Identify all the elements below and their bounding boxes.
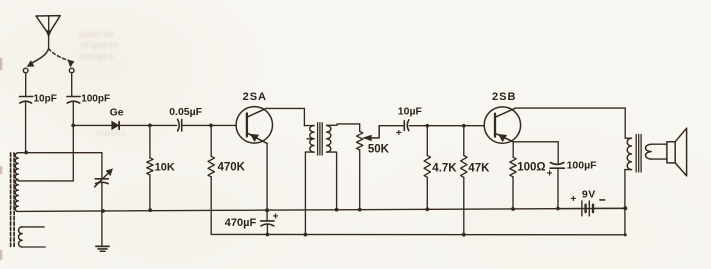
svg-text:100µF: 100µF bbox=[567, 159, 598, 171]
svg-text:+: + bbox=[570, 194, 576, 205]
svg-text:100Ω: 100Ω bbox=[517, 162, 545, 174]
svg-text:+: + bbox=[273, 212, 279, 223]
svg-text:0.05µF: 0.05µF bbox=[169, 106, 202, 118]
svg-text:4.7K: 4.7K bbox=[432, 163, 457, 175]
svg-text:Ge: Ge bbox=[110, 107, 124, 119]
svg-text:+: + bbox=[396, 128, 402, 139]
svg-text:+: + bbox=[547, 168, 553, 179]
svg-text:9V: 9V bbox=[582, 188, 596, 200]
svg-text:100pF: 100pF bbox=[81, 93, 110, 104]
svg-text:2SA: 2SA bbox=[243, 91, 267, 103]
svg-text:2SB: 2SB bbox=[492, 91, 516, 103]
svg-text:10µF: 10µF bbox=[398, 106, 423, 118]
svg-text:470K: 470K bbox=[218, 162, 246, 174]
svg-text:470µF: 470µF bbox=[225, 217, 257, 229]
svg-text:47K: 47K bbox=[468, 163, 490, 175]
svg-text:10K: 10K bbox=[155, 161, 175, 173]
svg-text:10pF: 10pF bbox=[34, 93, 57, 104]
svg-text:50K: 50K bbox=[368, 144, 390, 156]
